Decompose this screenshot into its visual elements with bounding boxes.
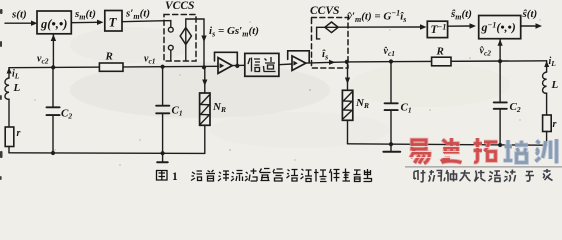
wire channel to U3 — [279, 63, 292, 66]
wire bottom rail left — [9, 152, 205, 155]
svg-text:g(•,•): g(•,•) — [40, 17, 67, 31]
wire U2 to channel — [232, 64, 245, 66]
wire vc2 to g feedback — [52, 35, 54, 68]
inductor L2 — [546, 61, 548, 72]
op-amp U3 buffer — [288, 51, 310, 63]
VCCS input terminal pin 1 — [168, 27, 173, 32]
wire terminal2 stub — [170, 50, 172, 61]
svg-text:g−1(•,•): g−1(•,•) — [481, 20, 516, 34]
watermark char 迪 — [441, 138, 462, 163]
label s(t) — [11, 0, 559, 139]
wire NR to bottom rail — [204, 125, 206, 153]
wire U3 to NR2 node — [306, 62, 347, 63]
svg-text:L: L — [13, 82, 21, 94]
scan edge artifacts — [0, 9, 3, 180]
node U2 out — [235, 64, 239, 68]
controlled source diamond VCCS — [180, 28, 191, 45]
svg-text:r: r — [17, 128, 21, 139]
watermark white streaks — [409, 147, 498, 158]
ground — [157, 161, 168, 163]
watermark char 培 — [504, 140, 529, 163]
node is2 arrowhead — [329, 60, 336, 65]
CCVS dashed box — [312, 18, 349, 69]
svg-text:s(t): s(t) — [11, 9, 27, 21]
svg-text:T: T — [109, 15, 118, 30]
svg-text:is = Gs′m(t): is = Gs′m(t) — [209, 25, 259, 39]
controlled source diamond CCVS — [325, 22, 338, 33]
node C2 bottom — [51, 151, 55, 155]
svg-text:R: R — [436, 46, 444, 58]
svg-text:ŝm(t): ŝm(t) — [450, 8, 472, 22]
node vc2 junction — [51, 65, 55, 69]
block T — [105, 11, 122, 32]
resistor r1 — [5, 127, 14, 147]
resistor r2 — [543, 115, 552, 132]
svg-text:R: R — [105, 51, 113, 63]
capacitor C2hat — [499, 61, 501, 101]
nonlinear resistor NR2 — [342, 90, 352, 120]
block g-1 — [479, 16, 521, 39]
wire T to VCCS — [122, 21, 171, 28]
wire output s-hat — [521, 25, 537, 27]
watermark char 训 — [536, 139, 557, 164]
svg-text:1: 1 — [172, 171, 178, 183]
wire CCVS left stub — [317, 27, 327, 39]
wire main node vc2-vc1 rail — [9, 66, 218, 67]
caption text 语音混沌保密通信硬件实验电路 — [191, 169, 372, 182]
svg-text:CCVS: CCVS — [310, 5, 339, 17]
VCCS dashed box — [164, 15, 196, 62]
wire g to T — [71, 21, 98, 23]
capacitor C2 — [52, 67, 54, 106]
wire to NR — [204, 67, 206, 93]
wire T-1 to g-1 — [448, 25, 471, 27]
node C2hat bottom — [498, 143, 502, 147]
node iL2 arrow — [544, 61, 549, 67]
nonlinear resistor NR — [200, 93, 210, 125]
node C1 bottom — [161, 151, 165, 155]
watermark char 易 — [411, 140, 430, 164]
wire r2 to bottom — [546, 132, 548, 146]
watermark tagline 射频和天线设计专家 — [414, 169, 553, 182]
scan specks — [34, 11, 540, 166]
svg-text:VCCS: VCCS — [165, 0, 194, 12]
node vc1 junction — [161, 65, 165, 69]
wire r to bottom rail — [8, 147, 10, 153]
capacitor C1hat — [390, 62, 392, 103]
resistor R2 — [432, 57, 451, 66]
svg-text:ŝ(t): ŝ(t) — [522, 8, 538, 20]
svg-text:r: r — [553, 119, 557, 130]
node vc2hat junction — [498, 59, 502, 63]
node is junction — [202, 65, 206, 69]
ground — [383, 151, 400, 153]
inductor L — [8, 68, 10, 78]
block g(.,.) U1 — [37, 11, 71, 34]
wire to NR2 — [347, 62, 349, 90]
watermark rule — [405, 166, 562, 168]
wire VCCS output — [186, 19, 204, 67]
node arrowhead into g — [31, 21, 38, 26]
wire input s(t) — [5, 22, 32, 24]
wire vc2hat to g-1 — [499, 40, 501, 62]
block channel glyphs 信道 — [248, 57, 276, 72]
block T inverse — [427, 21, 447, 37]
wire bottom rail right — [348, 144, 547, 145]
caption 图1 — [157, 171, 168, 181]
svg-text:L: L — [551, 79, 559, 91]
svg-text:sm(t): sm(t) — [74, 8, 96, 22]
wire diamond bottom stub — [185, 45, 187, 61]
watermark char 拓 — [474, 138, 498, 162]
resistor R1 — [99, 63, 123, 71]
wire NR2 to bottom — [347, 120, 349, 144]
VCCS input terminal pin 2 — [168, 45, 173, 50]
wire CCVS output to T-1 — [337, 26, 421, 28]
node iL arrow — [7, 67, 12, 73]
node NR2 junction — [345, 60, 349, 64]
wire main receiver rail — [347, 61, 547, 62]
op-amp U2 buffer — [215, 52, 238, 66]
node C1hat bottom — [389, 142, 393, 146]
block channel — [245, 53, 279, 76]
capacitor C1 — [162, 67, 164, 105]
node vc1hat junction — [389, 59, 393, 63]
